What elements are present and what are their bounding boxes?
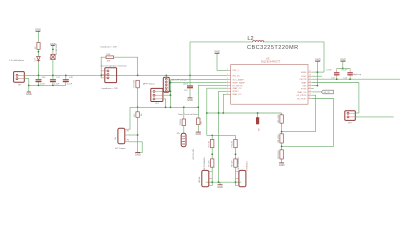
svg-text:15: 15 (309, 78, 311, 80)
wire ok_hyst (282, 99, 334, 147)
ground right of U3 (315, 58, 321, 62)
ground top-left (35, 28, 41, 32)
node (342, 68, 344, 70)
svg-text:BLM18PG121: BLM18PG121 (56, 44, 58, 55)
svg-text:PVSS: PVSS (301, 88, 307, 90)
resistor R15 (197, 118, 203, 125)
svg-text:VSS: VSS (302, 86, 307, 88)
connector JP1 mppt (151, 88, 163, 105)
svg-text:EPAD: EPAD (301, 71, 307, 74)
node (211, 153, 213, 155)
wire mppt rail (128, 107, 199, 129)
svg-text:OK_PROG: OK_PROG (296, 95, 307, 97)
wire (219, 182, 221, 184)
wire vss (312, 85, 317, 87)
svg-text:49TSA2020-5: 49TSA2020-5 (246, 161, 249, 171)
node (235, 181, 237, 183)
wire (217, 54, 227, 71)
wire ov rail (207, 134, 236, 136)
connector JP2 (101, 68, 116, 83)
wire vbat (312, 83, 359, 113)
resistor R11 (278, 134, 284, 143)
trimpot R21 (115, 128, 129, 144)
node (197, 106, 199, 108)
svg-text:GND: GND (187, 98, 193, 102)
capacitor C16 (36, 75, 47, 87)
resistor R18 (106, 54, 114, 63)
wire epad (312, 71, 324, 73)
svg-text:VREF_SAMP: VREF_SAMP (232, 82, 245, 85)
svg-text:13: 13 (309, 84, 311, 86)
svg-text:"0.1uF": "0.1uF" (341, 70, 348, 72)
ground (26, 92, 32, 96)
wire vstor rail (312, 78, 400, 80)
node (206, 112, 208, 114)
wire vref (171, 82, 227, 84)
svg-text:P$1: P$1 (127, 130, 130, 132)
svg-text:12: 12 (309, 87, 311, 89)
node (137, 75, 139, 77)
svg-text:R12 3.24M: R12 3.24M (278, 150, 280, 159)
wire (52, 60, 54, 76)
svg-text:VB_OK: VB_OK (324, 92, 331, 94)
svg-text:4k7 Trimpot: 4k7 Trimpot (115, 147, 126, 150)
wire vbat_ov (207, 88, 227, 135)
svg-text:GND: GND (135, 153, 141, 157)
node (189, 75, 191, 77)
svg-text:VIN_DC: VIN_DC (232, 75, 240, 77)
svg-text:GND: GND (26, 92, 32, 96)
svg-text:VBAT: VBAT (301, 81, 307, 84)
svg-text:LBST: LBST (301, 76, 307, 78)
resistor R6 (208, 159, 214, 167)
wire (197, 125, 199, 132)
svg-text:C15, 4.7F or lower: C15, 4.7F or lower (171, 79, 188, 81)
node (222, 112, 224, 114)
inductor L2 (190, 36, 324, 72)
svg-text:High freq: High freq (353, 74, 361, 76)
node (28, 85, 30, 87)
svg-text:OK_HYST: OK_HYST (297, 98, 307, 100)
svg-text:R17 10M: R17 10M (134, 80, 136, 88)
op-amp U3 refdes (261, 57, 281, 64)
svg-text:Impedance < 10R: Impedance < 10R (101, 46, 118, 49)
wire gnd rail (29, 84, 66, 86)
svg-text:9: 9 (309, 97, 310, 99)
node (317, 85, 319, 87)
svg-text:R10 6.81M: R10 6.81M (278, 114, 280, 123)
trimpot U$3 (236, 161, 249, 187)
wire (137, 88, 139, 112)
node (281, 131, 283, 133)
wire (24, 79, 29, 92)
node (170, 91, 172, 93)
svg-text:NXFT15XH103: NXFT15XH103 (193, 149, 195, 160)
node (281, 146, 283, 148)
wire (52, 46, 54, 54)
wire (163, 99, 166, 107)
wire (183, 107, 185, 119)
svg-text:Temp Threshold Select: Temp Threshold Select (178, 113, 199, 116)
wire (37, 62, 39, 75)
svg-text:Source Impedance Selection: Source Impedance Selection (101, 64, 127, 67)
svg-text:BQ25504RGTT: BQ25504RGTT (261, 61, 281, 64)
wire chain B (235, 135, 237, 182)
resistor R16 (35, 42, 40, 49)
ground (195, 132, 201, 136)
svg-text:10k: 10k (115, 137, 117, 140)
wire (128, 134, 138, 136)
svg-text:R5 5.6M: R5 5.6M (208, 140, 210, 147)
resistor R7 (232, 139, 238, 147)
wire (163, 91, 171, 95)
capacitor C13 (331, 68, 339, 80)
ground (217, 185, 223, 189)
ground (135, 153, 141, 157)
wire vbat_uv (223, 94, 226, 113)
svg-text:CBC3225T220MR: CBC3225T220MR (247, 45, 299, 51)
svg-text:VRDIV: VRDIV (232, 91, 239, 93)
ground (50, 42, 56, 46)
IC U3 right pins (296, 71, 312, 101)
wire lbst (312, 75, 322, 77)
ground (187, 98, 193, 102)
wire (316, 62, 318, 86)
svg-text:2.2uF: 2.2uF (40, 84, 46, 86)
svg-text:Impedance < 10R: Impedance < 10R (102, 87, 119, 90)
node (100, 75, 102, 77)
svg-text:10mF: 10mF (183, 83, 189, 85)
svg-text:11: 11 (309, 90, 311, 92)
wire chain A (211, 135, 213, 182)
svg-text:U$2 10k: U$2 10k (199, 177, 201, 183)
connector JP4 header (163, 77, 169, 92)
svg-text:VOC_SAMP: VOC_SAMP (232, 79, 244, 82)
svg-text:R11 4.32M: R11 4.32M (278, 134, 280, 143)
svg-text:OT_PROG: OT_PROG (232, 85, 242, 87)
wire l2 left drop (189, 42, 191, 76)
wire bottom rail (206, 181, 241, 183)
node (165, 75, 167, 77)
resistor R10 (278, 114, 284, 123)
IC U3 left pins (227, 69, 246, 96)
connector JP3 battery (345, 111, 356, 125)
ground above U3 (214, 50, 220, 54)
ground above C13 C14 (340, 58, 346, 62)
resistor R8 (232, 159, 238, 167)
resistor R22 (180, 119, 186, 126)
svg-text:2.2uF: 2.2uF (54, 84, 60, 86)
svg-text:2.2uF: 2.2uF (67, 84, 73, 86)
wire ok_prog (282, 95, 316, 131)
node (137, 134, 139, 136)
node (183, 106, 185, 108)
svg-text:GND: GND (279, 163, 285, 167)
wire ot_prog chain (198, 85, 226, 118)
capacitor C15 (184, 75, 193, 97)
varistor L3 (49, 44, 58, 59)
svg-text:VBAT_OK: VBAT_OK (297, 91, 307, 94)
svg-text:16: 16 (309, 75, 311, 77)
capacitor C17 (50, 75, 61, 87)
svg-text:14: 14 (309, 81, 311, 83)
svg-text:R6 5.9M: R6 5.9M (208, 160, 210, 167)
node (211, 135, 213, 137)
wire pvss stub (312, 87, 314, 89)
svg-text:10k: 10k (141, 114, 143, 117)
wire vrdiv (219, 91, 227, 182)
node (317, 71, 319, 73)
resistor R17 (134, 80, 140, 88)
node (38, 51, 40, 53)
net flag VB_OK (312, 90, 333, 94)
wire (342, 62, 344, 69)
wire (128, 142, 143, 153)
wire vrdiv rail (207, 112, 282, 114)
svg-text:VBAT_OV: VBAT_OV (232, 87, 242, 90)
wire (137, 117, 139, 152)
ferrite bead FB (256, 112, 261, 131)
node (218, 181, 220, 183)
trimpot U$2 (199, 170, 212, 186)
thermistor U4 (181, 133, 186, 146)
wire (37, 49, 39, 56)
wire (37, 32, 39, 43)
resistor R5 (208, 139, 214, 147)
svg-text:R22 12k: R22 12k (180, 119, 182, 125)
wire (183, 126, 185, 134)
svg-text:P$3: P$3 (127, 140, 130, 142)
ground (279, 163, 285, 167)
svg-text:GND: GND (195, 132, 201, 136)
svg-text:VBAT_UV: VBAT_UV (232, 93, 242, 96)
wire right chain (281, 113, 283, 163)
svg-text:R7 4.4M: R7 4.4M (232, 140, 234, 147)
wire vin bus (24, 74, 226, 76)
svg-text:L3: L3 (49, 57, 51, 59)
IC U3 box (231, 65, 308, 105)
svg-text:MPPT Select: MPPT Select (143, 82, 155, 85)
capacitor C18 (63, 75, 74, 86)
connector JP1 (14, 72, 25, 87)
capacitor C14 (343, 68, 353, 80)
svg-text:R8 6.2M: R8 6.2M (232, 160, 234, 167)
svg-text:R15: R15 (201, 121, 203, 124)
node (137, 106, 139, 108)
resistor R19 (134, 112, 143, 118)
svg-text:VSTOR: VSTOR (299, 79, 307, 81)
svg-text:R19: R19 (134, 114, 136, 117)
resistor R12 (278, 150, 284, 159)
svg-text:VSS_1: VSS_1 (232, 70, 239, 72)
node (235, 153, 237, 155)
node (52, 49, 54, 51)
node (170, 94, 172, 96)
svg-text:10R: 10R (107, 61, 111, 63)
node (170, 82, 172, 84)
zener diode D1 (35, 56, 41, 62)
wire impedance loop (101, 57, 137, 78)
svg-text:4.7uF: 4.7uF (326, 70, 332, 72)
svg-text:17: 17 (309, 71, 311, 73)
node (211, 181, 213, 183)
svg-text:10: 10 (309, 94, 311, 96)
node (218, 112, 220, 114)
svg-text:5.1v Vdd follower: 5.1v Vdd follower (9, 60, 25, 62)
wire (355, 116, 393, 118)
svg-text:GND: GND (217, 185, 223, 189)
node (165, 106, 167, 108)
wire (165, 75, 167, 77)
node (170, 106, 172, 108)
wire cap top rail (337, 67, 350, 69)
wire voc (171, 80, 227, 108)
